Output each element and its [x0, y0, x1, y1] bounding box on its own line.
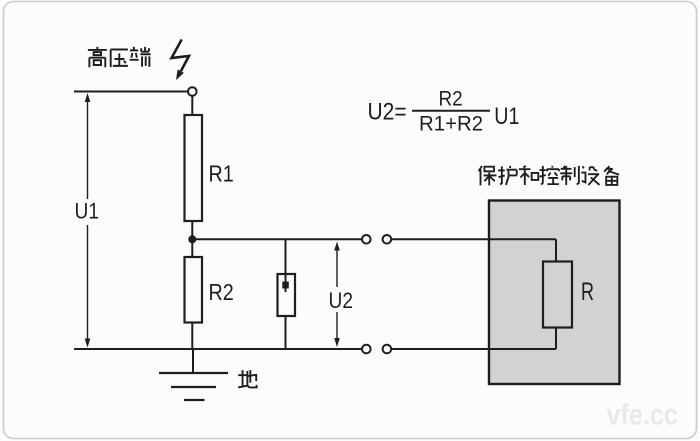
svg-text:vfe.cc: vfe.cc: [607, 397, 678, 431]
svg-text:R2: R2: [209, 279, 234, 305]
svg-text:R1: R1: [209, 161, 234, 187]
svg-text:R: R: [581, 277, 594, 306]
svg-text:U1: U1: [75, 199, 99, 224]
svg-text:U2=: U2=: [368, 98, 407, 125]
svg-text:U1: U1: [494, 102, 519, 129]
svg-text:R2: R2: [439, 87, 463, 110]
svg-text:R1+R2: R1+R2: [419, 112, 483, 136]
svg-text:U2: U2: [329, 289, 353, 314]
